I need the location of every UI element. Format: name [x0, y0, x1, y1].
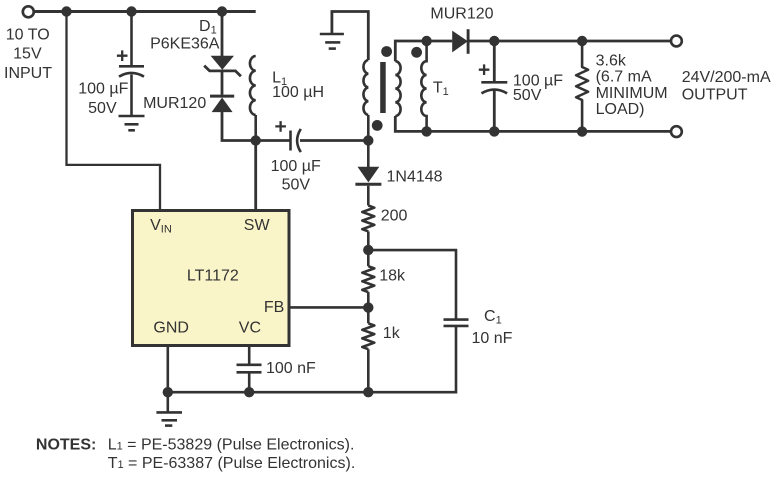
- wire SW: [254, 141, 257, 211]
- phase dot primary: [372, 120, 383, 131]
- wire R18k to FB node: [367, 292, 370, 307]
- wire ground rail: [168, 391, 368, 394]
- value C-in: [78, 81, 128, 117]
- wire to input cap: [130, 12, 133, 66]
- capacitor C-in 100uF 50V: [119, 66, 144, 76]
- wire secondary top to diode: [427, 40, 453, 43]
- svg-text:T1 = PE-63387 (Pulse Electroni: T1 = PE-63387 (Pulse Electronics).: [108, 455, 356, 472]
- node secondary top junction: [421, 36, 431, 46]
- node primary bottom junction: [363, 135, 373, 145]
- output terminal bottom: [671, 126, 682, 137]
- wire ground to primary top: [332, 12, 368, 61]
- svg-text:50V: 50V: [513, 87, 542, 104]
- phase dot secondary B: [411, 47, 422, 58]
- ground G3: [156, 412, 182, 425]
- node output cap bottom: [489, 126, 499, 136]
- output terminal top: [671, 36, 682, 47]
- svg-text:NOTES:: NOTES:: [36, 437, 96, 454]
- node input rail junction 2: [126, 6, 136, 16]
- wire D1 to MUR120: [221, 72, 224, 95]
- wire 100nF bottom: [248, 374, 251, 393]
- resistor 3.6k load: [576, 41, 588, 132]
- resistor 1k: [362, 323, 374, 349]
- wire primary bottom: [367, 115, 370, 141]
- svg-text:18k: 18k: [379, 267, 406, 284]
- svg-text:T1: T1: [433, 79, 449, 98]
- wire R200 to node: [367, 231, 370, 250]
- phase dot secondary A: [381, 46, 392, 57]
- node secondary bottom junction: [421, 126, 431, 136]
- node load resistor bottom: [577, 126, 587, 136]
- wire secondary A top: [395, 41, 426, 61]
- wire MUR120 to bottom node: [222, 112, 256, 141]
- svg-text:MUR120: MUR120: [143, 95, 206, 112]
- wire GND pin: [167, 346, 170, 412]
- svg-text:C1: C1: [484, 308, 502, 327]
- svg-text:OUTPUT: OUTPUT: [682, 87, 748, 104]
- capacitor coupling 100uF 50V: [291, 129, 301, 152]
- op-amp U1 LT1172 box: [133, 211, 290, 346]
- zener D1 P6KE36A: [204, 56, 241, 77]
- node output cap top: [489, 36, 499, 46]
- value coupling cap: [271, 158, 321, 193]
- svg-text:SW: SW: [244, 217, 271, 234]
- node D1 branch junction: [217, 6, 227, 16]
- svg-text:10 TO: 10 TO: [6, 26, 50, 43]
- svg-text:100 µH: 100 µH: [272, 84, 324, 101]
- svg-text:LOAD): LOAD): [596, 101, 645, 118]
- wire L1 bottom: [254, 115, 257, 141]
- svg-text:INPUT: INPUT: [4, 65, 52, 82]
- svg-text:100 nF: 100 nF: [266, 360, 316, 377]
- svg-text:10 nF: 10 nF: [472, 330, 513, 347]
- label input: [4, 26, 52, 82]
- svg-text:100 µF: 100 µF: [271, 158, 321, 175]
- wire output cap bottom: [493, 91, 496, 132]
- node ground rail GND: [163, 387, 173, 397]
- diode 1N4148: [355, 167, 381, 184]
- wire to D1: [221, 12, 224, 57]
- wire node to R18k: [367, 250, 370, 266]
- wire FB node to R1k: [367, 308, 370, 324]
- capacitor C1 10nF: [444, 320, 469, 326]
- svg-text:FB: FB: [264, 299, 284, 316]
- node load resistor top: [577, 36, 587, 46]
- diode MUR120 output: [452, 29, 468, 54]
- node SW junction: [251, 135, 261, 145]
- plus sign input cap: [117, 50, 128, 61]
- wire coupling cap to primary: [300, 139, 368, 142]
- svg-text:50V: 50V: [88, 100, 117, 117]
- svg-text:24V/200-mA: 24V/200-mA: [682, 69, 771, 86]
- svg-text:1k: 1k: [383, 325, 401, 342]
- wire R1k to ground rail: [367, 349, 370, 392]
- svg-text:(6.7 mA: (6.7 mA: [596, 69, 652, 86]
- wire FB: [289, 306, 368, 309]
- svg-text:1N4148: 1N4148: [387, 168, 443, 185]
- resistor 200: [362, 206, 374, 232]
- diode MUR120 (clamp): [210, 96, 234, 112]
- node FB junction: [363, 302, 373, 312]
- svg-text:100 µF: 100 µF: [78, 81, 128, 98]
- wire VIN feed: [67, 12, 161, 211]
- ground G2: [320, 34, 344, 49]
- ground G1: [119, 116, 145, 130]
- wire to output cap: [493, 41, 496, 81]
- input terminal: [23, 6, 34, 17]
- wire node to 1N4148: [367, 141, 370, 168]
- wire node to C1: [368, 250, 456, 319]
- wire VC pin: [248, 346, 251, 364]
- wire diode to R 200: [367, 186, 370, 206]
- transformer T1 core: [380, 62, 386, 113]
- transformer T1 primary winding: [363, 60, 368, 115]
- transformer T1 secondary winding B: [421, 41, 426, 131]
- svg-text:LT1172: LT1172: [187, 267, 239, 284]
- wire output top rail: [468, 40, 670, 43]
- svg-text:D1: D1: [199, 18, 217, 37]
- wire top rail: [33, 10, 255, 13]
- svg-text:GND: GND: [153, 320, 189, 337]
- svg-text:MINIMUM: MINIMUM: [596, 85, 668, 102]
- node ground rail VC: [244, 387, 254, 397]
- svg-text:15V: 15V: [13, 46, 42, 63]
- plus sign coupling cap: [275, 121, 286, 132]
- plus sign output cap: [479, 64, 490, 75]
- capacitor C-out 100uF 50V: [481, 82, 507, 93]
- transformer T1 secondary winding A: [395, 61, 400, 116]
- node ground rail right: [363, 387, 373, 397]
- svg-text:200: 200: [381, 207, 408, 224]
- capacitor 100nF: [237, 365, 262, 373]
- resistor 18k: [362, 266, 374, 292]
- svg-text:L1 = PE-53829 (Pulse Electroni: L1 = PE-53829 (Pulse Electronics).: [108, 437, 355, 454]
- inductor L1 100uH: [250, 56, 256, 115]
- node input rail junction 1: [61, 6, 71, 16]
- svg-text:50V: 50V: [282, 177, 311, 194]
- wire cap to ground: [130, 75, 133, 116]
- wire output bottom rail: [427, 130, 671, 133]
- svg-text:MUR120: MUR120: [430, 6, 493, 23]
- wire secondary A bottom: [395, 116, 426, 131]
- node R200/18k junction: [363, 245, 373, 255]
- wire C1 bottom: [372, 327, 456, 392]
- wire to coupling cap: [256, 139, 290, 142]
- svg-text:VC: VC: [239, 320, 261, 337]
- svg-text:P6KE36A: P6KE36A: [150, 36, 220, 53]
- svg-text:3.6k: 3.6k: [596, 53, 627, 70]
